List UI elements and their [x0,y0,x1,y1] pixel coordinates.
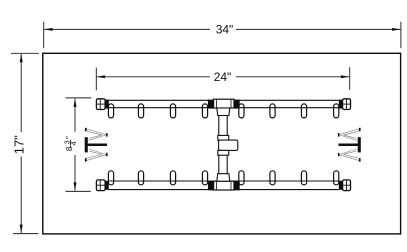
svg-text:34": 34" [216,23,234,37]
svg-text:17": 17" [12,135,27,154]
svg-text:": " [65,136,74,139]
svg-text:8: 8 [64,146,74,151]
svg-text:4: 4 [71,141,78,145]
svg-text:24": 24" [214,70,232,84]
